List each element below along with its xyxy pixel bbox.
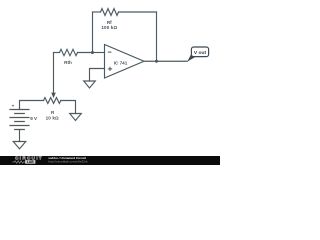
ground at op-amp non-inverting input xyxy=(84,81,96,88)
wire Rth to node A xyxy=(78,52,93,54)
footer logo squiggle xyxy=(12,161,25,164)
footer banner xyxy=(0,156,220,165)
wire Rth row left stub xyxy=(54,52,60,54)
wire feedback left vertical from node A up xyxy=(92,12,94,53)
svg-text:100 kΩ: 100 kΩ xyxy=(101,25,117,30)
wire battery bottom lead xyxy=(19,130,21,142)
footer logo LAB box xyxy=(25,160,35,164)
svg-text:+: + xyxy=(12,104,15,109)
ground at battery xyxy=(13,142,26,149)
wire feedback top horizontal left of Rf xyxy=(93,11,101,13)
op-amp U1 triangle body xyxy=(105,45,145,79)
wire feedback top horizontal right of Rf xyxy=(119,11,157,13)
potentiometer R body xyxy=(44,98,61,104)
op-amp plus sign xyxy=(108,67,112,71)
wire corner down from Rth row to potentiometer wiper xyxy=(53,53,55,94)
ground at potentiometer right xyxy=(70,114,82,121)
wire feedback right vertical down to output junction xyxy=(156,12,158,61)
V out flag box xyxy=(191,47,208,57)
svg-text:http://circuitlab.com/c6e22rk: http://circuitlab.com/c6e22rk xyxy=(48,160,88,164)
junction node A dot xyxy=(91,51,94,54)
svg-text:10 kΩ: 10 kΩ xyxy=(46,115,59,120)
resistor Rf xyxy=(101,9,119,16)
potentiometer wiper arrowhead xyxy=(51,93,56,99)
wire op-amp output to V out xyxy=(144,60,187,62)
V out flag tail xyxy=(187,54,196,62)
svg-text:9 V: 9 V xyxy=(30,116,38,121)
wire node A to op-amp inverting input xyxy=(93,52,105,54)
junction output node dot xyxy=(155,60,158,63)
op-amp minus sign xyxy=(108,51,112,53)
svg-text:LAB: LAB xyxy=(27,160,34,164)
wire potentiometer right to ground corner xyxy=(61,101,76,114)
wire op-amp non-inverting input xyxy=(90,69,105,82)
wire battery top to potentiometer xyxy=(20,101,44,110)
svg-text:Rth: Rth xyxy=(64,60,72,65)
svg-text:V out: V out xyxy=(194,50,207,56)
svg-text:IC 741: IC 741 xyxy=(114,61,128,66)
battery V1 plates xyxy=(10,110,29,130)
resistor Rth xyxy=(60,49,78,55)
